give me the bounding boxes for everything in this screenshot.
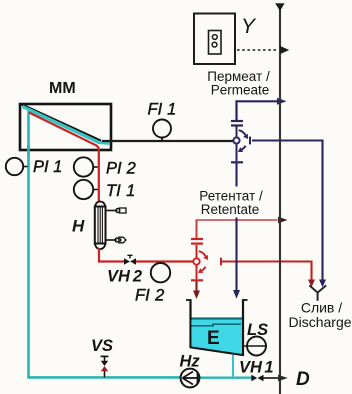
- wire: red line VH2 to valve U2: [136, 260, 193, 262]
- svg-text:VH1: VH1: [239, 359, 274, 377]
- svg-text:Discharge: Discharge: [288, 314, 351, 330]
- svg-text:LS: LS: [247, 321, 268, 339]
- wire: tank outlet cyan: [232, 355, 234, 378]
- svg-text:Retentate: Retentate: [201, 202, 260, 217]
- valve VH2: [124, 255, 136, 264]
- pump Hz: [181, 369, 200, 388]
- gauge FI2: [151, 263, 170, 282]
- three-way valve U1 (navy): [231, 101, 250, 162]
- wire: permeate navy line up-right to riser with arrow: [237, 101, 278, 120]
- svg-text:FI1: FI1: [148, 101, 177, 119]
- heat exchanger H: [95, 202, 126, 250]
- svg-text:MM: MM: [49, 80, 76, 97]
- svg-text:Hz: Hz: [180, 353, 201, 371]
- svg-text:PI1: PI1: [33, 158, 62, 176]
- wire: cyan line pump to valve VH1: [200, 377, 252, 379]
- wire: red retentate drop from MM: [98, 148, 100, 204]
- wire: retentate red line up-right to riser with arrow: [197, 220, 278, 238]
- wire: red line H to elbow to VH2: [99, 248, 124, 262]
- wire: MM outlet black line to valve U1: [102, 140, 233, 142]
- gauge FI1: [153, 120, 171, 141]
- label Retentate (with backing): [194, 187, 268, 218]
- wire: maroon line valve U2 down to tank: [195, 281, 197, 291]
- wire: navy line valve U1 right to far right drop: [252, 141, 323, 280]
- arrow navy discharge: [319, 280, 326, 288]
- membrane module MM: [20, 104, 111, 150]
- three-way valve U2 (red): [191, 220, 221, 280]
- arrow red discharge: [308, 280, 315, 288]
- svg-text:Permeate: Permeate: [211, 83, 270, 98]
- wire: feed cyan vertical (left): [27, 111, 30, 378]
- svg-text:H: H: [72, 217, 85, 236]
- valve VS: [101, 356, 109, 377]
- discharge funnel: [309, 285, 326, 292]
- gauge TI1: [74, 180, 98, 199]
- wire: cyan overdraw across box edge: [27, 145, 30, 156]
- svg-text:VH2: VH2: [107, 268, 142, 286]
- gauge PI2: [74, 157, 98, 176]
- wire: navy line valve U1 down to tank: [235, 163, 237, 290]
- gauge PI1: [6, 158, 28, 175]
- vent funnel at riser top: [275, 3, 284, 11]
- wire: red line valve U2 to discharge: [222, 262, 312, 280]
- instrument box Y: [194, 14, 235, 65]
- wire: line VH1 to D arrow: [264, 377, 280, 379]
- svg-text:Y: Y: [241, 15, 257, 38]
- wire: bottom cyan line left of pump: [27, 376, 180, 379]
- svg-text:D: D: [296, 369, 310, 390]
- svg-text:E: E: [207, 328, 220, 349]
- tank E: [186, 300, 248, 356]
- valve VH1: [251, 375, 263, 382]
- svg-text:VS: VS: [91, 337, 113, 355]
- level sensor LS: [242, 337, 267, 356]
- svg-text:PI2: PI2: [106, 160, 136, 178]
- wire: dashed signal line from Y box to riser: [237, 49, 278, 51]
- riser vertical line: [279, 10, 281, 394]
